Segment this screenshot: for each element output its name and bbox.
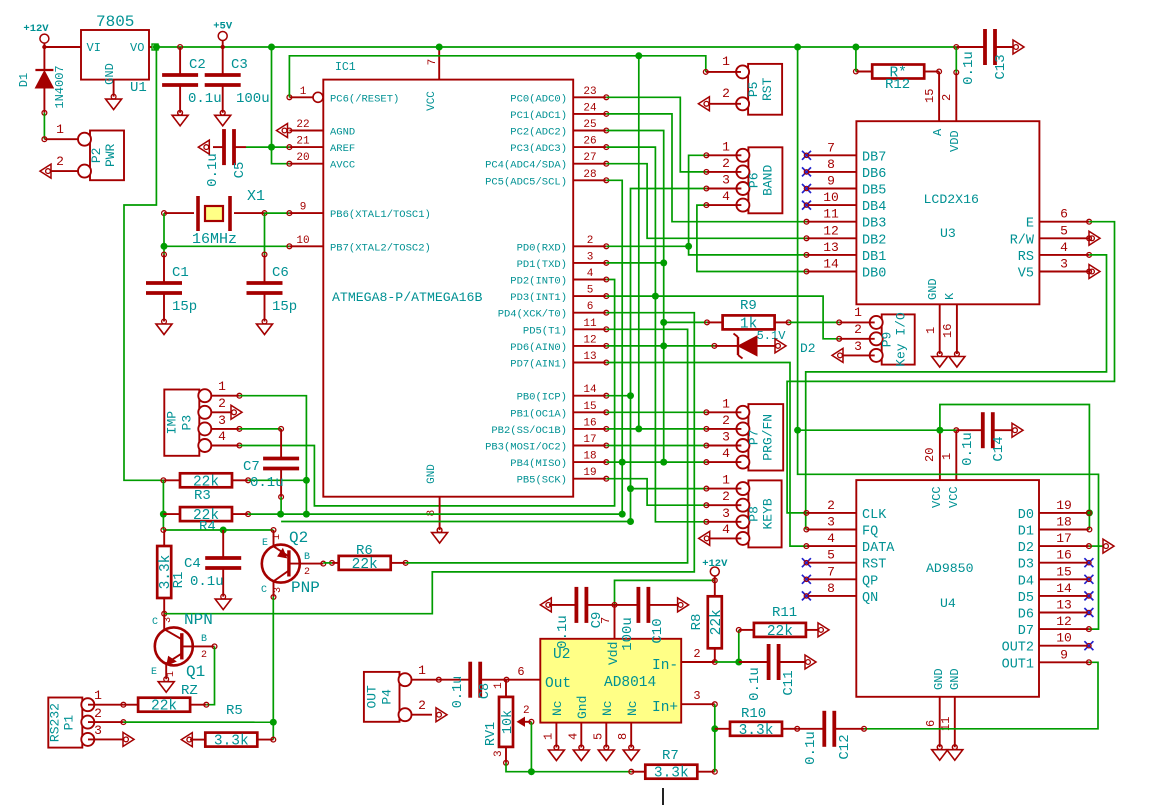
no-connect U4 D (1084, 641, 1093, 650)
ground U2 pin 5 (598, 745, 614, 760)
pin U4 12 D7 (1018, 614, 1089, 639)
junction v6 PD1 (660, 259, 667, 266)
pin end U4 D1 (1087, 527, 1092, 532)
svg-text:AVCC: AVCC (330, 160, 355, 172)
wire R4 right under IC (248, 513, 622, 515)
svg-text:4: 4 (1060, 240, 1068, 255)
pin U2 4 (566, 723, 583, 750)
pin IC1 25 PC2(ADC2) (510, 119, 608, 139)
ground C1 (156, 319, 172, 334)
svg-text:RST: RST (760, 77, 775, 101)
capacitor C7 0.1u (279, 427, 284, 459)
pin IC1 13 PD7(AIN1) (510, 351, 608, 371)
svg-text:1: 1 (924, 327, 938, 334)
svg-text:1: 1 (541, 733, 555, 740)
pin U3 8 DB6 (807, 157, 887, 182)
pin U4 17 D2 (1018, 531, 1089, 556)
wire R9 to P9 pin1 (789, 321, 840, 323)
pin U3 13 DB1 (807, 240, 887, 265)
svg-text:PD3(INT1): PD3(INT1) (510, 292, 567, 304)
wire PB4 to P7 pin4 (606, 461, 706, 463)
svg-text:19: 19 (1056, 498, 1072, 513)
svg-text:PD2(INT0): PD2(INT0) (510, 276, 567, 288)
flag P4 pin 2 (436, 708, 447, 722)
IC U2 AD8014 body (540, 639, 681, 723)
svg-text:RS232: RS232 (47, 703, 62, 742)
junction Q2 collector R5 (270, 719, 277, 726)
pin U4 10 OUT2 (1002, 631, 1089, 656)
svg-text:17: 17 (1056, 531, 1072, 546)
IC U3 LCD2X16 body (856, 121, 1039, 304)
capacitor C13 0.1u (985, 29, 995, 65)
pin U4 16 D3 (1018, 548, 1089, 573)
svg-text:Nc: Nc (550, 700, 565, 716)
junction VCC rail (436, 44, 443, 51)
svg-text:100u: 100u (236, 91, 270, 107)
wire U4 D2 out (1089, 545, 1103, 547)
svg-text:P9: P9 (880, 332, 895, 348)
svg-text:14: 14 (823, 257, 839, 272)
svg-text:C1: C1 (172, 265, 189, 281)
pin U3 12 DB2 (807, 223, 887, 248)
svg-text:P3: P3 (179, 415, 194, 431)
pin IC1 22 AGND (287, 119, 355, 139)
svg-text:2: 2 (418, 698, 426, 713)
svg-text:PB1(OC1A): PB1(OC1A) (510, 408, 567, 420)
pin IC1 18 PB4(MISO) (510, 451, 608, 471)
pin U2 2 In- (681, 647, 717, 664)
svg-text:10: 10 (823, 190, 839, 205)
pin U3 11 DB3 (807, 207, 887, 232)
wire RV1 wiper down (530, 722, 532, 772)
svg-text:3: 3 (273, 587, 284, 593)
svg-text:0.1u: 0.1u (250, 475, 284, 491)
svg-text:PC3(ADC3): PC3(ADC3) (510, 143, 567, 155)
wire C5 to AREF (246, 146, 289, 148)
svg-text:P8: P8 (746, 506, 761, 522)
svg-text:QN: QN (862, 591, 878, 606)
pin U2 8 (616, 723, 633, 750)
ground U3 K (949, 352, 965, 367)
svg-text:15p: 15p (272, 299, 297, 315)
connector P3 IMP (164, 389, 211, 456)
svg-text:OUT1: OUT1 (1002, 657, 1034, 672)
capacitor C3 labels (220, 57, 269, 115)
resistor R6 22k (339, 556, 391, 573)
svg-text:0.1u: 0.1u (188, 91, 222, 107)
wire +5V rail (158, 46, 956, 48)
ground C2 (172, 110, 188, 125)
svg-text:NPN: NPN (184, 611, 213, 629)
wire D1 to P2 pin 1 (43, 113, 45, 139)
svg-text:P4: P4 (380, 689, 395, 705)
capacitor C14 leads and labels (956, 430, 1012, 466)
pin U4 7 QP (806, 564, 878, 589)
svg-text:7: 7 (827, 140, 835, 155)
pin P8 4 (710, 522, 741, 538)
flag C9 left (540, 598, 551, 612)
pin IC1 16 PB2(SS/OC1B) (491, 417, 608, 437)
wire P6 pin3 net v2 (631, 189, 707, 522)
pin U3 16 K (941, 304, 959, 356)
power flag +5V (213, 21, 233, 50)
capacitor C2 0.1u (178, 45, 183, 75)
svg-text:3: 3 (163, 617, 174, 623)
svg-text:5: 5 (827, 548, 835, 563)
pin U4 20 VCC (923, 430, 940, 480)
svg-text:8: 8 (426, 510, 438, 517)
svg-text:1: 1 (722, 473, 730, 488)
svg-text:RV1: RV1 (484, 722, 499, 746)
pin P4 2 (411, 698, 432, 715)
svg-text:9: 9 (300, 202, 307, 214)
svg-text:VCC: VCC (947, 486, 961, 508)
pin IC1 19 PB5(SCK) (517, 467, 609, 487)
flag P8 pin 4 (699, 531, 710, 545)
wire Q2 base to R6 (323, 562, 332, 564)
artifact mark bottom (662, 788, 664, 805)
diode D1 1N4007 (17, 47, 67, 115)
pin P1 1 (88, 688, 123, 705)
junction v1 R4 row (619, 511, 626, 518)
no-connect U4 D (1084, 575, 1093, 584)
svg-text:PB7(XTAL2/TOSC2): PB7(XTAL2/TOSC2) (330, 242, 431, 254)
svg-text:1: 1 (166, 671, 177, 677)
pin U4 2 CLK (806, 498, 887, 523)
svg-text:C12: C12 (837, 734, 853, 759)
svg-text:0.1u: 0.1u (451, 676, 466, 708)
ground U2 pin 4 (573, 745, 589, 760)
junction P3 net to R4 (303, 511, 310, 518)
wire P6 pin4 net v10 (697, 205, 807, 271)
svg-text:C2: C2 (189, 57, 206, 73)
junction v6 R9 (660, 319, 667, 326)
svg-text:23: 23 (583, 86, 596, 98)
flag P9 pin 3 (832, 348, 843, 362)
svg-text:1: 1 (300, 86, 307, 98)
svg-text:Nc: Nc (600, 700, 615, 716)
svg-text:In+: In+ (652, 700, 678, 716)
svg-text:DB5: DB5 (862, 184, 886, 199)
flag P1 pin 3 (123, 732, 134, 746)
resistor R12 leads and label (854, 69, 940, 93)
svg-text:2: 2 (304, 567, 310, 578)
zener diode D2 5.1V (712, 329, 816, 359)
wire PC4 to vertical v4 DB2 (606, 164, 806, 239)
svg-text:PB0(ICP): PB0(ICP) (517, 392, 567, 404)
svg-text:4: 4 (218, 429, 226, 444)
svg-text:B: B (201, 634, 207, 645)
pin end +12V node (712, 578, 717, 583)
wire R3 right to node (248, 479, 306, 481)
pin U3 7 DB7 (807, 140, 887, 165)
capacitor C5 0.1u (224, 129, 234, 165)
connector P1 RS232 (47, 698, 94, 748)
svg-text:DB6: DB6 (862, 167, 886, 182)
svg-text:9: 9 (827, 174, 835, 189)
svg-text:2: 2 (587, 235, 594, 247)
svg-text:15: 15 (583, 401, 596, 413)
svg-text:1: 1 (94, 688, 102, 703)
svg-text:3: 3 (854, 339, 862, 354)
pin U4 1 VCC (940, 428, 959, 480)
pin P6 2 (704, 156, 741, 174)
resistor RZ leads and label (121, 683, 209, 707)
capacitor C1 labels (164, 265, 197, 322)
pin U2 1 (541, 723, 558, 750)
svg-text:3: 3 (493, 750, 505, 757)
ground C6 (257, 319, 273, 334)
capacitor C9 0.1u (576, 587, 586, 623)
resistor R12 R* (872, 65, 924, 82)
wire Vdd to +12V (615, 580, 715, 605)
svg-text:8: 8 (616, 733, 630, 740)
wire row under IC from C7 area (281, 521, 630, 523)
svg-text:3: 3 (693, 689, 700, 703)
svg-text:PRG/FN: PRG/FN (760, 414, 775, 461)
resistor R11 leads and label (736, 605, 818, 632)
pin U2 3 In+ (681, 689, 717, 707)
svg-text:C11: C11 (781, 670, 797, 695)
junction AREF node (268, 144, 275, 151)
svg-text:4: 4 (827, 531, 835, 546)
svg-text:Out: Out (545, 676, 571, 692)
capacitor C12 0.1u (824, 711, 834, 747)
pin IC1 6 PD4(XCK/T0) (498, 301, 609, 321)
capacitor C11 0.1u (769, 644, 779, 680)
svg-text:PC4(ADC4/SDA): PC4(ADC4/SDA) (485, 160, 567, 172)
svg-text:FQ: FQ (862, 525, 878, 540)
svg-text:R7: R7 (662, 748, 679, 764)
svg-text:D1: D1 (1018, 525, 1034, 540)
svg-text:QP: QP (862, 574, 878, 589)
junction XTAL2 node (161, 243, 168, 250)
svg-text:RZ: RZ (181, 683, 198, 699)
pin U2 6 Out (504, 665, 540, 682)
wire P8 pin1 row (631, 488, 707, 490)
pin IC1 27 PC4(ADC4/SDA) (485, 152, 609, 172)
pin IC1 4 PD2(INT0) (510, 268, 608, 288)
junction R4 left (160, 511, 167, 518)
pin end U4 DATA (804, 544, 809, 549)
resistor R10 3.3k (730, 722, 782, 739)
svg-text:R10: R10 (741, 706, 766, 722)
pin IC1 5 PD3(INT1) (510, 285, 608, 305)
wire X1 left to PB7 (163, 213, 165, 254)
resistor R3 leads and label (161, 478, 251, 504)
junction C11 R11 (735, 659, 742, 666)
capacitor C3 100u (222, 47, 224, 75)
svg-text:PD4(XCK/T0): PD4(XCK/T0) (498, 309, 567, 321)
svg-text:PB3(MOSI/OC2): PB3(MOSI/OC2) (485, 442, 567, 454)
flag C13 right (1013, 40, 1024, 54)
svg-text:22k: 22k (767, 624, 793, 640)
pin U4 9 OUT1 (1002, 647, 1089, 672)
resistor R3 22k (180, 473, 232, 490)
pin end U3 data (804, 269, 809, 274)
wire +5V down to U4 VCC (798, 47, 1099, 629)
svg-text:2: 2 (827, 498, 835, 513)
svg-text:GND: GND (926, 278, 940, 300)
capacitor C13 leads and labels (956, 47, 1013, 85)
svg-text:8: 8 (827, 157, 835, 172)
svg-text:D0: D0 (1018, 508, 1034, 523)
svg-text:OUT2: OUT2 (1002, 641, 1034, 656)
pin end U3 data (804, 236, 809, 241)
svg-text:PD5(T1): PD5(T1) (523, 325, 567, 337)
svg-text:GND: GND (426, 464, 438, 484)
svg-text:14: 14 (1056, 581, 1072, 596)
svg-text:15p: 15p (172, 299, 197, 315)
svg-text:PC6(/RESET): PC6(/RESET) (330, 93, 399, 105)
flag P3 pin 2 (231, 405, 242, 419)
svg-text:D3: D3 (1018, 558, 1034, 573)
svg-text:4: 4 (722, 446, 730, 461)
pin P9 1 (837, 305, 875, 325)
svg-text:5.1V: 5.1V (757, 329, 787, 343)
capacitor C10 leads and labels (615, 605, 678, 651)
svg-text:16: 16 (1056, 548, 1072, 563)
pin U3 6 E (1026, 207, 1092, 232)
svg-text:22k: 22k (709, 609, 725, 635)
svg-text:P5: P5 (746, 81, 761, 97)
pin IC1 14 PB0(ICP) (517, 384, 609, 404)
pin end U4 FQ (804, 527, 809, 532)
pin U3 1 GND (924, 304, 942, 356)
ground C4 (215, 594, 231, 609)
wire U3 E to U4 CLK (787, 222, 1114, 513)
svg-text:15: 15 (1056, 564, 1072, 579)
svg-text:12: 12 (583, 334, 596, 346)
wire PD7 to U4 DATA (606, 363, 806, 547)
no-connect U3 DB (802, 151, 811, 160)
svg-text:AREF: AREF (330, 143, 355, 155)
svg-text:10: 10 (1056, 631, 1072, 646)
junction reset net (635, 52, 642, 59)
no-connect U3 DB (802, 184, 811, 193)
capacitor C6 labels (265, 265, 298, 322)
svg-text:AGND: AGND (330, 127, 355, 139)
svg-text:13: 13 (583, 351, 596, 363)
junction R12 riser (852, 44, 859, 51)
svg-text:3: 3 (722, 506, 730, 521)
connector P8 KEYB (736, 480, 781, 547)
svg-text:C3: C3 (231, 57, 248, 73)
svg-text:GND: GND (932, 668, 946, 690)
power flag +12V (23, 23, 49, 47)
pin U4 5 RST (806, 548, 886, 573)
ground Q1 emitter (158, 677, 174, 692)
wire U1 VI input (42, 45, 81, 49)
svg-text:25: 25 (583, 119, 596, 131)
junction RV1 wiper (528, 768, 535, 775)
svg-text:2: 2 (722, 156, 730, 171)
pin IC1 20 AVCC (287, 152, 355, 172)
wire +5V left rail to R3 (124, 47, 163, 480)
junction v2 PB0 (627, 392, 634, 399)
svg-text:16: 16 (941, 324, 955, 338)
pin P5 2 (710, 86, 741, 104)
svg-text:0.1u: 0.1u (961, 51, 977, 85)
wire PD3 to P9 pin2 (606, 296, 839, 339)
pin U2 5 (591, 723, 608, 750)
capacitor C7 labels (243, 459, 284, 499)
svg-text:3: 3 (827, 515, 835, 530)
svg-text:4: 4 (587, 268, 594, 280)
svg-text:12: 12 (1056, 614, 1072, 629)
wire P6 pin1 net v9 (689, 155, 807, 255)
wire RV1 bottom to R7 (506, 763, 631, 772)
pin IC1 8 GND (426, 497, 442, 533)
svg-text:22k: 22k (151, 699, 177, 715)
svg-text:0.1u: 0.1u (190, 574, 224, 590)
svg-text:DB4: DB4 (862, 200, 886, 215)
pin P3 3 (211, 413, 242, 431)
junction +5V riser (268, 44, 275, 51)
pin IC1 21 AREF (287, 136, 355, 156)
no-connect U4 D (1084, 591, 1093, 600)
svg-text:E: E (1026, 217, 1034, 232)
svg-text:3: 3 (587, 251, 594, 263)
svg-text:PB5(SCK): PB5(SCK) (517, 475, 567, 487)
no-connect U4 (802, 575, 811, 584)
svg-text:R8: R8 (689, 614, 705, 631)
svg-text:C9: C9 (589, 612, 605, 629)
ground U3 GND (932, 352, 948, 367)
flag D2 anode (775, 339, 786, 353)
pin U1 GND (113, 80, 115, 97)
svg-text:B: B (304, 552, 310, 563)
flag AGND (277, 124, 288, 138)
svg-text:AD9850: AD9850 (926, 561, 974, 576)
svg-text:P6: P6 (746, 172, 761, 188)
svg-text:3: 3 (722, 173, 730, 188)
svg-text:DB3: DB3 (862, 217, 886, 232)
svg-text:PD1(TXD): PD1(TXD) (517, 259, 567, 271)
svg-text:D4: D4 (1018, 574, 1034, 589)
svg-text:1: 1 (722, 54, 730, 69)
svg-text:1: 1 (493, 682, 505, 689)
power flag +12V right (702, 558, 728, 580)
pin P7 2 (704, 413, 741, 431)
pin IC1 1 PC6(/RESET) (287, 86, 399, 106)
resistor R8 22k (708, 596, 725, 648)
svg-text:R5: R5 (226, 703, 243, 719)
svg-text:C7: C7 (243, 459, 260, 475)
wire R4 node to R1 C4 Q2 emitter (163, 529, 273, 531)
pin IC1 7 VCC (427, 47, 439, 80)
svg-text:13: 13 (1056, 598, 1072, 613)
svg-text:KEYB: KEYB (760, 498, 775, 529)
pin P9 3 (843, 339, 875, 355)
svg-text:Q2: Q2 (289, 529, 308, 547)
ground U1 (106, 94, 122, 109)
no-connect U4 (802, 591, 811, 600)
svg-text:22k: 22k (352, 557, 378, 573)
svg-text:7805: 7805 (96, 13, 134, 31)
svg-text:BAND: BAND (760, 165, 775, 196)
crystal X1 16MHz (162, 188, 267, 248)
svg-text:Vdd: Vdd (606, 642, 621, 665)
resistor R1 3.3k (157, 546, 174, 598)
svg-text:E: E (151, 667, 157, 678)
junction U4 pin20 (936, 427, 943, 434)
pin IC1 24 PC1(ADC1) (510, 102, 608, 122)
capacitor C2 labels (178, 57, 222, 115)
flag U4 D2 (1103, 539, 1114, 553)
wire PC1 to vertical v7 (606, 114, 806, 222)
pin P7 1 (704, 396, 741, 414)
